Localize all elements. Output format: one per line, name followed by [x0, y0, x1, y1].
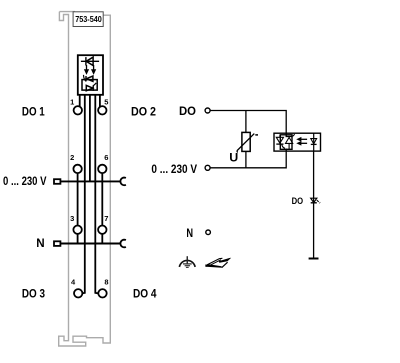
- wire varistor branch: [245, 111, 247, 168]
- svg-text:753-540: 753-540: [75, 15, 102, 24]
- L bus 0..230V: [61, 180, 121, 182]
- svg-text:8: 8: [104, 277, 108, 286]
- varistor RV1: [237, 132, 258, 152]
- optotriac box U2: [274, 133, 321, 151]
- label box 753-540: [73, 12, 103, 27]
- wire pin5: [99, 95, 101, 107]
- terminal 6: [98, 165, 106, 173]
- svg-text:5: 5: [104, 97, 108, 106]
- wire DO4 vertical: [95, 95, 98, 293]
- optocoupler light arrows: [297, 138, 307, 145]
- wire terminal7 to N bus: [101, 234, 103, 244]
- svg-text:N: N: [36, 236, 44, 250]
- terminal 8: [98, 289, 106, 297]
- status LED DO indicator: [311, 198, 320, 203]
- L female contact: [120, 178, 125, 186]
- triac thyristor up: [286, 134, 295, 149]
- wire 230V bottom: [210, 149, 286, 168]
- svg-text:DO 1: DO 1: [22, 105, 45, 119]
- wire DO top: [210, 111, 286, 137]
- terminal DO right circuit: [205, 108, 210, 113]
- svg-text:DO: DO: [292, 196, 304, 207]
- inner triac box: [280, 135, 292, 150]
- svg-text:DO 2: DO 2: [131, 105, 156, 119]
- N female contact: [120, 240, 125, 248]
- svg-text:7: 7: [104, 214, 108, 223]
- triac thyristor down: [276, 135, 285, 149]
- svg-text:N: N: [186, 226, 193, 240]
- svg-text:2: 2: [70, 153, 74, 162]
- wire terminal2 to L bus and to terminal3: [77, 173, 79, 226]
- wire L feed: [89, 95, 91, 181]
- LED light arrows: [85, 65, 95, 73]
- terminal N right circuit: [206, 230, 211, 235]
- svg-text:U: U: [229, 151, 238, 165]
- terminal 2: [73, 165, 81, 173]
- svg-text:0 ... 230 V: 0 ... 230 V: [151, 162, 197, 176]
- svg-text:DO 4: DO 4: [133, 287, 157, 301]
- triac symbol in electronics box: [82, 75, 97, 91]
- svg-text:DO: DO: [179, 104, 196, 118]
- LED D1 in electronics box: [81, 57, 99, 65]
- svg-text:1: 1: [70, 97, 74, 106]
- wire terminal6 to L bus and to terminal7: [101, 173, 103, 226]
- terminal 4: [74, 289, 82, 297]
- N bus: [61, 243, 121, 245]
- svg-text:3: 3: [70, 214, 74, 223]
- electronics box U1: [78, 55, 103, 95]
- terminal 3: [73, 226, 81, 234]
- module outline 753-540 body: [59, 12, 111, 346]
- L male connector: [54, 179, 60, 184]
- wire DO3 vertical: [82, 95, 85, 293]
- earth on rail symbol: [179, 256, 195, 267]
- svg-text:6: 6: [104, 153, 108, 162]
- terminal 230V right circuit: [205, 165, 210, 170]
- wire opto pin to terminal bottom: [313, 151, 315, 258]
- optocoupler LED: [311, 133, 317, 151]
- wire pin1: [79, 95, 81, 107]
- terminal 1: [74, 106, 82, 114]
- terminal 7: [98, 226, 106, 234]
- svg-text:DO 3: DO 3: [22, 287, 45, 301]
- DIN rail icon: [206, 258, 231, 268]
- terminal 5: [98, 106, 106, 114]
- wire terminal3 to N bus: [77, 234, 79, 244]
- termination bar: [309, 258, 319, 260]
- svg-text:0 ... 230 V: 0 ... 230 V: [3, 174, 47, 188]
- N male connector: [54, 241, 60, 246]
